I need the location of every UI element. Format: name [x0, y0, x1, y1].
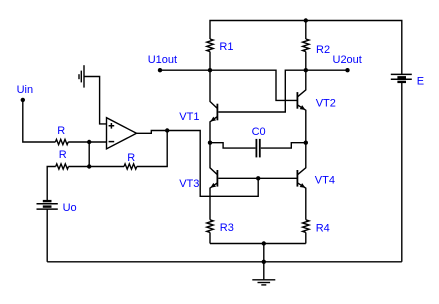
wire R(a) to op-amp inverting input	[68, 141, 106, 143]
svg-text:U1out: U1out	[148, 54, 177, 66]
resistor R2	[305, 21, 307, 40]
svg-text:R: R	[127, 152, 135, 164]
wire join down to bottom rail	[263, 244, 265, 262]
wire R3 to R4 bottom join	[210, 243, 306, 245]
node VT1 collector / R1	[208, 68, 212, 72]
wire node A down to node A2	[88, 142, 90, 167]
resistor R (bias, second row)	[56, 164, 69, 169]
node Uin terminal	[21, 98, 25, 102]
transistor VT3	[210, 143, 217, 220]
wire Uo bottom to bottom rail	[46, 209, 48, 261]
resistor R1	[207, 39, 213, 52]
svg-text:C0: C0	[252, 126, 266, 138]
wire feedback R to op-amp output node	[137, 131, 167, 167]
node A (inverting input junction)	[87, 140, 91, 144]
svg-text:R: R	[59, 149, 67, 161]
wire op-amp output with jog to output node	[137, 131, 168, 134]
node A2 (second row junction)	[87, 164, 91, 168]
wire Uo top lead and corner to R(b)	[47, 167, 56, 201]
wire C0 right lead	[261, 143, 306, 148]
svg-text:VT3: VT3	[179, 178, 199, 190]
node VT3/VT4 base drive	[256, 176, 260, 180]
svg-text:Uo: Uo	[63, 202, 77, 214]
svg-text:R3: R3	[220, 222, 234, 234]
svg-text:VT2: VT2	[316, 98, 336, 110]
node bottom rail / ground	[262, 260, 266, 264]
wire bottom rail	[47, 261, 402, 263]
svg-text:E: E	[417, 75, 424, 87]
capacitor C0	[256, 139, 259, 158]
svg-text:R1: R1	[219, 41, 233, 53]
wire R2 node to U2out	[306, 69, 348, 71]
svg-text:VT1: VT1	[179, 111, 199, 123]
wire cross-coupling R1 node to VT2 base	[210, 70, 297, 100]
resistor R (input, top row)	[55, 139, 68, 144]
wire top rail	[210, 21, 402, 75]
node VT1 emitter / VT3 collector	[208, 141, 212, 145]
node op-amp output	[165, 128, 169, 132]
wire R1 bottom lead	[209, 52, 211, 71]
resistor R (feedback)	[124, 164, 137, 169]
svg-text:U2out: U2out	[333, 54, 362, 66]
ground (op-amp + input, sideways)	[79, 65, 84, 87]
node U2out terminal	[345, 68, 349, 72]
wire R(b) to node A2 to R(c)	[69, 166, 125, 168]
svg-text:R2: R2	[316, 44, 330, 56]
battery E	[391, 74, 412, 82]
transistor VT4	[297, 143, 305, 220]
wire U1out to R1 node	[160, 69, 210, 71]
wire Uin to resistor R(a)	[23, 100, 56, 142]
svg-text:VT4: VT4	[315, 175, 335, 187]
node VT2 emitter / VT4 collector	[304, 141, 308, 145]
wire output node to VT3/VT4 base node	[167, 131, 258, 197]
wire C0 left lead	[210, 143, 255, 148]
wire VT3/VT4 base row	[218, 177, 296, 179]
svg-text:R4: R4	[316, 223, 330, 235]
wire op-amp noninverting input to ground	[84, 77, 107, 124]
node VT2 collector / R2	[304, 68, 308, 72]
op-amp U1	[107, 118, 137, 149]
wire cross-coupling R2 node to VT1 base	[218, 70, 305, 112]
node R3/R4 join	[262, 241, 266, 245]
resistor R3	[207, 220, 213, 233]
svg-text:R: R	[57, 125, 65, 137]
svg-text:Uin: Uin	[17, 84, 34, 96]
transistor VT1	[210, 70, 217, 143]
resistor R4	[303, 220, 309, 233]
ground (main)	[252, 262, 275, 285]
node U1out terminal	[158, 68, 162, 72]
transistor VT2	[297, 70, 305, 143]
battery Uo	[37, 201, 58, 209]
node top rail to R2	[304, 18, 308, 22]
wire E bottom / right rail	[401, 83, 403, 262]
